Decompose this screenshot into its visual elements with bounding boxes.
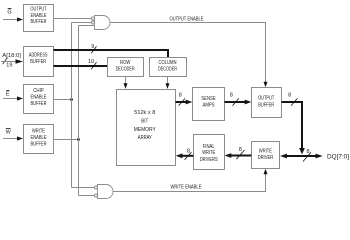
slash output buffer to DQ [291, 98, 297, 105]
wire write-enable to top gate input 3 [79, 25, 95, 27]
svg-text:BUFFER: BUFFER [31, 142, 47, 148]
svg-text:OUTPUT ENABLE: OUTPUT ENABLE [170, 16, 204, 22]
wire column decoder to array [167, 77, 169, 84]
wire write-enable from bottom gate to write driver [113, 174, 266, 192]
svg-text:DRIVER: DRIVER [258, 155, 274, 161]
input label W-bar [6, 129, 12, 136]
arrowhead write-enable into write driver bottom [264, 169, 268, 175]
svg-text:E: E [6, 92, 10, 98]
box 512k x 8 BIT MEMORY ARRAY [117, 90, 176, 166]
arrowhead write driver to final write drivers [225, 153, 232, 158]
wire output-enable from top gate to output buffer [110, 23, 266, 83]
svg-text:DECODER: DECODER [116, 66, 135, 72]
buffer OUTPUT ENABLE BUFFER [24, 5, 54, 32]
bus DQ bidirectional line [286, 155, 317, 157]
svg-text:FINAL: FINAL [203, 144, 215, 150]
arrowhead E input [17, 96, 23, 100]
box SENSE AMPS [193, 88, 225, 121]
wire W input [3, 138, 18, 140]
arrowhead A input [16, 59, 24, 64]
junction dot write-enable net [77, 138, 80, 141]
arrowhead output-enable into output buffer [264, 82, 268, 88]
svg-text:ENABLE: ENABLE [31, 135, 47, 141]
buffer CHIP ENABLE BUFFER [24, 85, 54, 114]
wire E input [3, 98, 18, 100]
svg-text:8: 8 [187, 149, 190, 155]
bus write driver to final write drivers [231, 155, 252, 157]
arrowhead column decoder to array [166, 83, 170, 89]
wire WE buffer output to riser [54, 139, 79, 141]
gate AND bottom (write enable) [94, 185, 113, 199]
arrowhead G input [17, 17, 23, 21]
box WRITE DRIVER [252, 142, 280, 169]
svg-text:BUFFER: BUFFER [31, 19, 47, 25]
box OUTPUT BUFFER [252, 88, 282, 118]
svg-text:COLUMN: COLUMN [159, 60, 177, 66]
wire row decoder to array [125, 77, 127, 84]
bus output buffer to DQ [282, 102, 303, 149]
wire chip-enable vertical net [71, 23, 73, 188]
svg-text:WRITE ENABLE: WRITE ENABLE [171, 184, 202, 190]
input label E-bar [6, 91, 10, 98]
svg-text:ARRAY: ARRAY [138, 135, 152, 141]
svg-text:DRIVERS: DRIVERS [200, 157, 218, 163]
buffer ADDRESS BUFFER [24, 47, 54, 77]
box COLUMN DECODER [150, 58, 187, 77]
slash sense amps to output buffer [232, 98, 238, 105]
box ROW DECODER [108, 58, 144, 77]
slash write driver to final write drivers [236, 150, 244, 159]
svg-text:ADDRESS: ADDRESS [29, 53, 48, 59]
svg-text:8: 8 [239, 147, 242, 153]
slash final write drivers to array [185, 152, 192, 160]
wire A input [1, 61, 17, 63]
bus array to sense amps [176, 101, 188, 103]
arrowhead W input [17, 136, 23, 140]
svg-text:ENABLE: ENABLE [31, 95, 47, 101]
svg-text:ENABLE: ENABLE [31, 13, 47, 19]
wire chip-enable to bottom gate input 1 [72, 187, 95, 189]
svg-text:MEMORY: MEMORY [134, 127, 156, 133]
arrowhead row decoder to array [124, 83, 128, 89]
svg-text:WRITE: WRITE [202, 150, 215, 156]
svg-text:WRITE: WRITE [259, 149, 272, 155]
svg-text:DQ[7:0]: DQ[7:0] [327, 155, 349, 161]
bus 9-wide address to column decoder [54, 50, 169, 58]
svg-text:8: 8 [179, 93, 182, 99]
wire CE buffer output to riser [54, 99, 72, 101]
svg-text:ROW: ROW [120, 60, 131, 66]
bus 10-wide address to row decoder [54, 65, 108, 67]
slash DQ bus [303, 152, 311, 161]
arrowhead DQ left into write driver [280, 154, 287, 159]
svg-text:512k x 8: 512k x 8 [134, 110, 155, 116]
svg-text:19: 19 [6, 63, 12, 69]
wire chip-enable to top gate input 2 [72, 22, 92, 24]
svg-text:BIT: BIT [141, 118, 149, 124]
svg-text:SENSE: SENSE [201, 96, 216, 102]
svg-text:WRITE: WRITE [32, 129, 45, 135]
arrowhead final write drivers to array [176, 153, 183, 158]
arrowhead array to sense amps [186, 100, 193, 105]
svg-text:9: 9 [91, 44, 94, 50]
svg-text:A[18:0]: A[18:0] [2, 53, 21, 59]
slash on 10 bus [91, 62, 96, 69]
slash array to sense amps [179, 98, 185, 105]
svg-text:BUFFER: BUFFER [30, 59, 46, 65]
svg-text:CHIP: CHIP [33, 88, 44, 94]
buffer WRITE ENABLE BUFFER [24, 125, 54, 154]
junction dot chip-enable net [70, 98, 73, 101]
gate AND top (output enable) [91, 16, 110, 30]
bus final write drivers to array [182, 155, 193, 157]
svg-text:OUTPUT: OUTPUT [30, 6, 47, 12]
svg-text:DECODER: DECODER [158, 66, 177, 72]
box FINAL WRITE DRIVERS [194, 135, 225, 170]
slash on 9 bus [91, 46, 96, 53]
arrowhead sense amps to output buffer [245, 100, 252, 105]
wire OE buffer to gate input 1 [54, 18, 92, 20]
svg-text:8: 8 [230, 93, 233, 99]
svg-text:BUFFER: BUFFER [258, 102, 274, 108]
svg-text:W: W [6, 129, 12, 135]
svg-text:AMPS: AMPS [203, 103, 215, 109]
svg-text:8: 8 [288, 93, 291, 99]
arrowhead output buffer bus down to DQ line [299, 148, 305, 154]
svg-text:BUFFER: BUFFER [31, 101, 47, 107]
wire write-enable to bottom gate input 2 [79, 195, 95, 197]
svg-text:OUTPUT: OUTPUT [258, 96, 275, 102]
wire write-enable vertical net [78, 26, 80, 196]
svg-text:G: G [7, 10, 11, 16]
bus sense amps to output buffer [225, 101, 246, 103]
arrowhead DQ right [316, 154, 323, 159]
slash on A bus [3, 58, 8, 65]
wire G input [3, 19, 18, 21]
svg-text:10: 10 [88, 59, 94, 65]
input label G-bar [7, 9, 11, 16]
